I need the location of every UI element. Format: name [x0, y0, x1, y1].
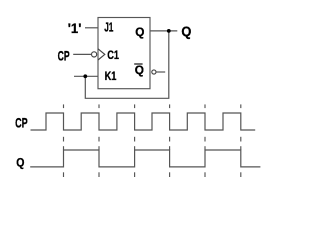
clock inversion bubble	[92, 52, 97, 57]
dotted guide line t6	[240, 104, 242, 177]
dotted guide line t3	[134, 104, 136, 177]
svg-text:CP: CP	[58, 47, 70, 63]
dotted guide line t4	[169, 104, 171, 177]
dotted guide line t2	[98, 104, 100, 177]
svg-text:Q: Q	[181, 24, 191, 39]
wire K1 stub	[74, 75, 98, 77]
svg-text:Q: Q	[135, 63, 144, 77]
overline of Q-bar	[134, 63, 142, 65]
CP clock waveform	[31, 113, 256, 130]
wire feedback Q to K1	[85, 31, 169, 98]
Q output waveform	[30, 150, 260, 167]
dotted guide line t5	[204, 104, 206, 177]
junction dot on K1 wire	[83, 74, 87, 78]
svg-text:C1: C1	[107, 48, 119, 62]
JK flip-flop U1 (box)	[98, 18, 150, 89]
svg-text:CP: CP	[15, 114, 28, 130]
wire '1' to J1	[85, 27, 98, 29]
wire Q-bar stub	[156, 71, 165, 73]
clock dynamic-input triangle	[98, 49, 105, 60]
svg-text:Q: Q	[16, 155, 25, 169]
Q-bar inversion bubble	[152, 70, 156, 74]
junction dot on Q wire	[167, 29, 171, 33]
svg-text:K1: K1	[105, 69, 117, 83]
wire Q output	[150, 30, 177, 32]
svg-text:Q: Q	[135, 25, 144, 39]
svg-text:'1': '1'	[68, 20, 82, 36]
svg-text:J1: J1	[104, 20, 113, 34]
dotted guide line t1	[63, 104, 65, 177]
wire CP to clock bubble	[73, 53, 91, 55]
